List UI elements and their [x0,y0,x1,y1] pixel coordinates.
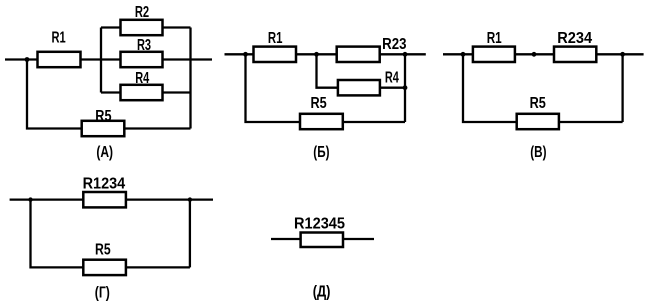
resistor R12345 (circuit D) [301,233,343,248]
circuit G output wire [126,198,213,200]
svg-text:R1: R1 [268,30,283,47]
wire parallel-right vertical (circuit A) [189,28,191,129]
wire A left vertical + bottom to R5 [27,60,83,129]
wire V left vertical + bottom to R5 [463,54,518,122]
wire to R4 [101,91,122,93]
resistor R4 (circuit A) [121,85,163,100]
svg-text:R2: R2 [135,4,149,21]
circuit A output wire [191,58,213,60]
node B-right junction dot [403,52,408,57]
wire B left vertical + bottom to R5 [246,54,302,122]
wire R1 to R234 [515,53,555,55]
resistor R23 (circuit B) [337,47,380,62]
wire R5 to right vertical (circuit G bottom) [126,266,190,268]
node G-right junction dot [188,197,192,201]
svg-text:(Б): (Б) [313,144,329,161]
resistor R5 (circuit G) [83,260,126,275]
wire to R2 [101,26,122,28]
svg-text:R1234: R1234 [83,176,126,193]
svg-text:R4: R4 [385,70,399,87]
resistor R5 (circuit A) [82,121,125,136]
wire R1 to R23 [296,53,338,55]
circuit G input wire [10,198,85,200]
node B-mid junction dot [314,52,319,57]
svg-text:R4: R4 [135,70,149,87]
circuit V output wire [596,53,643,55]
resistor R234 (circuit V) [554,47,596,62]
svg-text:R12345: R12345 [294,215,345,232]
wire R2 to right vertical [163,26,191,28]
resistor R4 (circuit B) [338,80,380,95]
wire R5 to right vertical (circuit B bottom) [343,121,405,123]
node G-left junction dot [28,197,32,201]
svg-text:R234: R234 [557,30,592,47]
svg-text:(А): (А) [96,144,113,161]
svg-text:R5: R5 [95,242,111,259]
circuit B output wire [380,53,426,55]
svg-text:R5: R5 [95,108,111,125]
circuit A input wire [5,58,39,60]
wire R4 to right vertical (circuit B) [380,87,405,89]
wire R1 to R3 [81,58,122,60]
svg-text:(Г): (Г) [95,285,110,302]
svg-text:R23: R23 [382,36,406,53]
circuit B input wire [225,53,255,55]
svg-text:R1: R1 [52,30,66,47]
node V-right junction dot [620,52,625,57]
wire parallel-left vertical (circuit A) [100,28,102,93]
resistor R1 (circuit A) [38,52,81,67]
circuit V input wire [443,53,474,55]
svg-text:(В): (В) [530,144,546,161]
circuit D output wire [343,238,374,240]
wire R4 to right vertical [163,91,191,93]
svg-text:R3: R3 [137,37,151,54]
wire V right vertical [621,54,623,122]
wire B right vertical [404,54,406,122]
resistor R1234 (circuit G) [83,192,126,207]
node B-left junction dot [243,52,248,57]
svg-text:R5: R5 [311,95,327,112]
resistor R3 (circuit A) [121,52,163,67]
node B-R4 junction dot [403,85,408,90]
wire R3 to right vertical [163,58,191,60]
svg-text:R5: R5 [530,95,546,112]
svg-text:R1: R1 [487,30,502,47]
resistor R2 (circuit A) [121,20,163,35]
resistor R5 (circuit V) [517,114,559,129]
wire G right vertical [189,200,191,268]
node V-mid junction dot [532,52,537,57]
node V-left junction dot [461,52,466,57]
circuit D input wire [271,238,302,240]
node A-left junction dot [25,57,30,62]
wire B mid vertical to R4 branch [317,54,339,87]
resistor R1 (circuit B) [254,47,297,62]
svg-text:(Д): (Д) [313,284,331,301]
wire R5 to right vertical (circuit V bottom) [559,121,623,123]
resistor R5 (circuit B) [300,114,343,129]
resistor R1 (circuit V) [473,47,515,62]
wire G left vertical + bottom to R5 [31,200,85,268]
wire R5 to right vertical (circuit A bottom) [124,127,190,129]
